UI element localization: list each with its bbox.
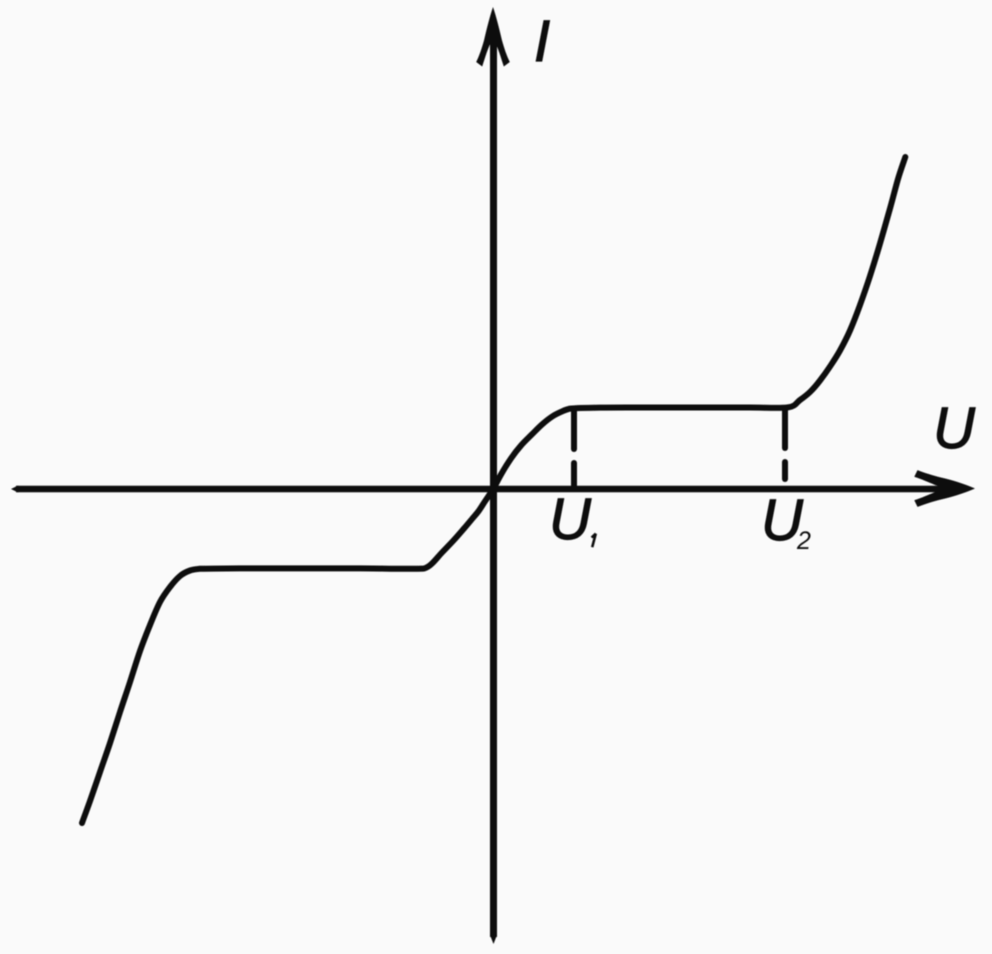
svg-text:2: 2 <box>796 527 811 555</box>
svg-text:U: U <box>549 487 592 552</box>
svg-text:U: U <box>933 396 976 461</box>
svg-text:I: I <box>534 9 550 74</box>
